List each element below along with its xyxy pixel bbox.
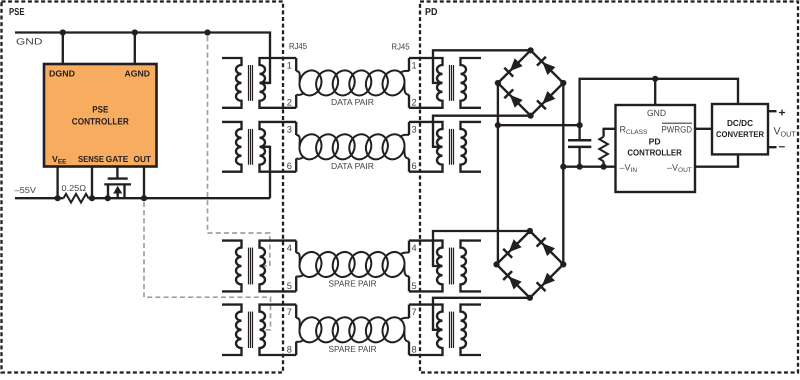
svg-text:3: 3 [287,124,292,134]
svg-text:SPARE PAIR: SPARE PAIR [329,344,377,354]
svg-text:–55V: –55V [15,185,37,195]
wire RJ45 step left pair 4 [295,305,297,355]
wire T2 center tap [260,146,271,148]
PSE boundary box [2,2,284,373]
node BR2 right [560,261,566,267]
diode bridge BR2 [497,231,564,298]
pin 8 right [412,345,417,355]
svg-text:SENSE: SENSE [78,154,104,164]
wire DGND [62,33,64,65]
pin VEE [52,154,66,166]
wire VOUT plus stub [768,110,777,112]
node BR2 left [493,261,499,267]
node DGND junction [60,29,66,35]
DC/DC converter U3 [712,104,768,154]
wire RJ45 step right pair 3 [408,241,410,292]
svg-text:RJ45: RJ45 [289,41,307,51]
pin 4 right [412,243,417,253]
node BR1 top [528,47,534,53]
twisted pair SPARE PAIR 3 [296,249,409,280]
node GND rail junction [652,76,658,82]
node SENSE junction [89,195,95,201]
wire PD T3 center tap riser [433,231,530,266]
pin PWRGD label [662,123,693,134]
transformer PD T2 (pins 3-6) [409,122,481,172]
svg-text:1: 1 [412,61,417,71]
wire GND rail [15,33,270,83]
PSE controller U1 [44,64,157,167]
svg-text:SPARE PAIR: SPARE PAIR [329,279,377,289]
label PD CONTROLLER [627,136,682,157]
resistor RCLASS [599,129,615,167]
svg-text:AGND: AGND [125,69,151,79]
svg-text:7: 7 [412,307,417,317]
svg-text:DC/DC: DC/DC [727,118,754,128]
capacitor C1 [568,125,591,167]
svg-text:DGND: DGND [49,69,75,79]
svg-text:DATA PAIR: DATA PAIR [331,161,374,171]
svg-text:8: 8 [287,345,292,355]
wire bridge right bus [562,83,564,264]
node -VIN rail j2 [577,164,583,170]
transformer PSE T2 (pins 3-6) [222,122,296,172]
svg-text:GATE: GATE [106,154,129,164]
node BR1 right [560,80,566,86]
PD boundary box [420,2,798,373]
wire VOUT minus stub [768,146,777,148]
wire T1 center tap [260,82,271,84]
svg-text:CONVERTER: CONVERTER [716,130,764,139]
svg-text:2: 2 [412,97,417,107]
transformer PD T3 (pins 4-5) [409,241,481,292]
svg-text:8: 8 [412,345,417,355]
wire -55V rail [15,147,270,198]
svg-text:5: 5 [412,281,417,291]
svg-text:5: 5 [287,281,292,291]
transformer PSE T1 (pins 1-2) [222,58,296,108]
twisted pair DATA PAIR 1 [296,67,409,98]
label SPARE PAIR 3 [329,279,377,289]
svg-text:+: + [779,106,786,120]
pin -VOUT label [667,162,692,174]
node plus link junction [577,122,583,128]
svg-text:PWRGD: PWRGD [662,125,693,135]
node BR1 left [495,80,501,86]
pin 3 right [412,124,417,134]
pin GATE [106,154,129,164]
label RJ45 left [289,41,307,51]
node BR1 bottom [528,113,534,119]
wire GATE [116,167,118,179]
label RJ45 right [392,42,410,52]
diode bridge BR1 [498,50,563,115]
svg-text:0.25Ω: 0.25Ω [62,183,87,193]
svg-text:PSE: PSE [92,105,108,115]
pin 3 left [287,124,292,134]
label DATA PAIR 1 [331,97,374,107]
node spare-feed junction [204,29,210,35]
wire PD GND pin [654,79,656,105]
label VOUT [774,126,797,139]
label -55V [15,185,37,195]
pin 2 left [287,97,292,107]
wire PWRGD [695,128,712,130]
pin RCLASS label [620,125,648,137]
dashed feed GND to spare T3 tap [208,36,270,266]
pin 1 left [287,61,292,71]
dashed feed OUT to spare T4 tap [144,202,271,330]
svg-text:OUT: OUT [134,154,152,164]
wire -VIN rail [563,166,615,168]
pin GND label [647,108,666,118]
wire RJ45 step left pair 3 [295,241,297,292]
pin 5 left [287,281,292,291]
svg-text:DATA PAIR: DATA PAIR [331,97,374,107]
node drain junction [105,195,111,201]
svg-text:6: 6 [287,161,292,171]
svg-text:2: 2 [287,97,292,107]
svg-text:7: 7 [287,307,292,317]
svg-text:GND: GND [16,37,43,47]
label SPARE PAIR 4 [329,344,377,354]
node AGND junction [132,29,138,35]
pin 6 right [412,161,417,171]
svg-text:CONTROLLER: CONTROLLER [72,117,129,127]
svg-text:6: 6 [412,161,417,171]
pin 5 right [412,281,417,291]
pin -VIN label [620,162,638,174]
wire RJ45 step left pair 2 [295,122,297,172]
wire PD T1 center tap riser [433,50,530,83]
wire bridge left bus [497,83,499,264]
svg-text:PD: PD [425,7,438,18]
svg-text:4: 4 [287,243,292,253]
twisted pair DATA PAIR 2 [296,131,409,162]
wire RJ45 step left pair 1 [295,58,297,108]
transformer PSE T4 (pins 7-8) [222,305,296,355]
pin 1 right [412,61,417,71]
node -VIN rail j3 [601,164,607,170]
PD controller U2 [616,105,696,192]
label DATA PAIR 2 [331,161,374,171]
wire PD T2 center tap riser [433,116,530,147]
svg-text:4: 4 [412,243,417,253]
wire plus link [498,124,580,126]
svg-text:GND: GND [647,108,666,118]
node BR2 top [527,228,533,234]
svg-text:1: 1 [287,61,292,71]
svg-text:PD: PD [649,136,661,146]
label PD [425,7,438,18]
label plus [779,106,786,120]
pin SENSE [78,154,104,164]
wire -VOUT [695,154,738,166]
wire PD T4 center tap riser [433,298,530,330]
pin AGND [125,69,151,79]
node -VIN rail j1 [560,164,566,170]
pin DGND [49,69,75,79]
wire RJ45 step right pair 4 [408,305,410,355]
wire top rail [580,79,738,125]
node VEE junction [55,195,61,201]
pin 6 left [287,161,292,171]
svg-text:RJ45: RJ45 [392,42,410,52]
twisted pair SPARE PAIR 4 [296,314,409,345]
node left bus junction [495,122,501,128]
transformer PSE T3 (pins 4-5) [222,241,296,292]
wire RJ45 step right pair 2 [408,122,410,172]
node OUT junction [141,195,147,201]
wire RJ45 step right pair 1 [408,58,410,108]
svg-text:3: 3 [412,124,417,134]
svg-text:PSE: PSE [9,7,25,18]
wire AGND [134,33,136,65]
transformer PD T1 (pins 1-2) [409,58,481,108]
pin 2 right [412,97,417,107]
wire OUT [143,167,145,199]
wire SENSE [91,167,93,199]
label DC/DC CONVERTER [716,118,764,139]
svg-text:CONTROLLER: CONTROLLER [627,147,682,157]
transistor Q1 (MOSFET) [104,179,131,199]
svg-text:VOUT: VOUT [774,126,797,139]
pin 7 right [412,307,417,317]
pin 8 left [287,345,292,355]
label GND [16,37,43,47]
pin OUT [134,154,152,164]
pin 4 left [287,243,292,253]
resistor 0.25ohm [64,194,89,203]
pin 7 left [287,307,292,317]
label 0.25ohm [62,183,87,193]
label PSE CONTROLLER [72,105,129,127]
wire VEE [56,167,58,199]
transformer PD T4 (pins 7-8) [409,305,481,355]
label PSE [9,7,25,18]
label minus [779,139,786,153]
node BR2 bottom [527,295,533,301]
svg-text:–: – [779,139,786,153]
